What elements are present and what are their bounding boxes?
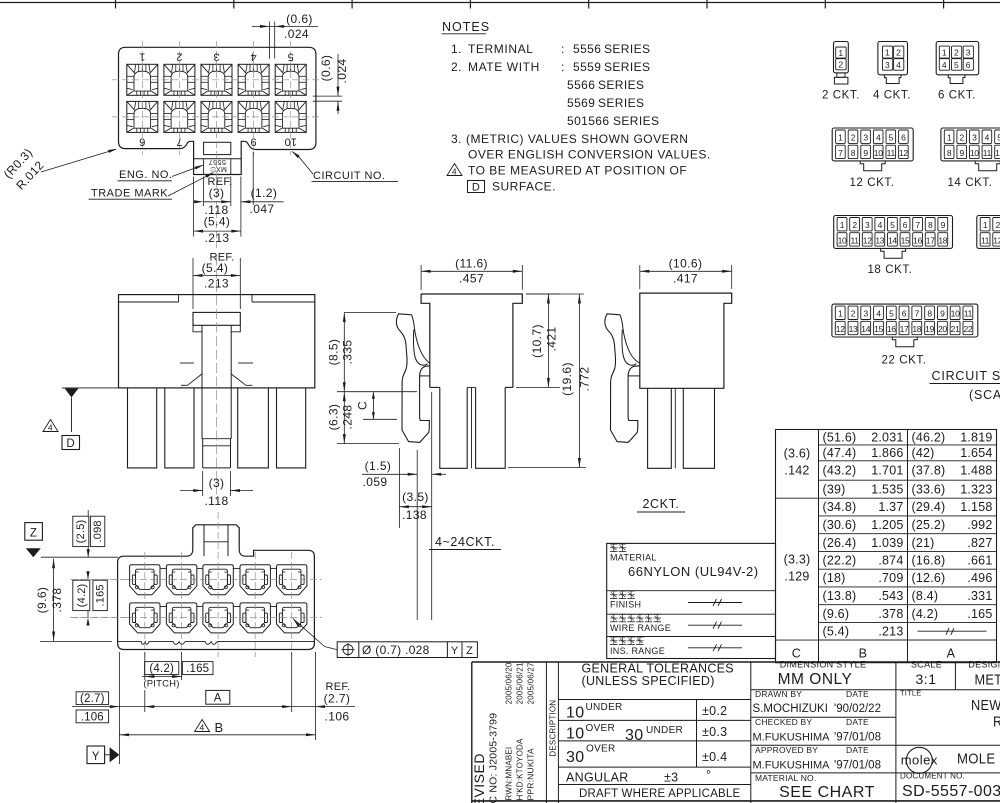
svg-text:.106: .106 <box>325 710 350 724</box>
svg-text:10: 10 <box>970 148 979 158</box>
svg-text:17: 17 <box>900 324 909 334</box>
svg-text:.772: .772 <box>578 367 592 392</box>
svg-text:10: 10 <box>566 705 584 722</box>
svg-text:(9.6): (9.6) <box>823 607 850 621</box>
svg-text:A: A <box>947 647 956 661</box>
svg-text:2: 2 <box>954 47 959 57</box>
svg-text:4: 4 <box>251 51 257 63</box>
svg-text:'90/02/22: '90/02/22 <box>834 703 881 715</box>
svg-text:2005/06/20: 2005/06/20 <box>505 662 514 704</box>
svg-text:(5.4): (5.4) <box>204 215 231 229</box>
svg-text:3: 3 <box>885 60 890 70</box>
svg-text:5566: 5566 <box>567 78 595 92</box>
svg-text:.213: .213 <box>204 277 229 291</box>
svg-text:(2.7): (2.7) <box>80 693 105 705</box>
svg-text:SCALE: SCALE <box>911 660 942 670</box>
svg-text:DATE: DATE <box>846 745 869 755</box>
svg-text:12: 12 <box>836 324 845 334</box>
svg-text:10: 10 <box>566 726 584 743</box>
svg-text:'97/01/08: '97/01/08 <box>834 760 881 772</box>
svg-text:3.: 3. <box>451 132 462 146</box>
svg-text:S.MOCHIZUKI: S.MOCHIZUKI <box>753 703 828 715</box>
svg-text:(5.4): (5.4) <box>823 625 850 639</box>
svg-text:Z: Z <box>466 645 473 657</box>
svg-text:22: 22 <box>963 324 972 334</box>
svg-text:(PITCH): (PITCH) <box>143 679 179 690</box>
svg-text:7: 7 <box>915 220 920 230</box>
svg-text:.106: .106 <box>81 711 104 723</box>
svg-text:.992: .992 <box>967 518 992 532</box>
svg-text:'97/01/08: '97/01/08 <box>834 732 881 744</box>
svg-text:.138: .138 <box>402 508 427 522</box>
svg-text:3: 3 <box>213 51 219 63</box>
svg-text:(51.6): (51.6) <box>823 430 857 444</box>
svg-text:1.701: 1.701 <box>871 464 903 478</box>
svg-text:15: 15 <box>874 324 883 334</box>
svg-text:.118: .118 <box>204 494 228 508</box>
svg-text:SERIES: SERIES <box>604 42 650 56</box>
svg-text:(0.6): (0.6) <box>286 12 313 26</box>
svg-text:MET: MET <box>975 670 1000 687</box>
svg-text:1.039: 1.039 <box>871 536 903 550</box>
svg-text:19: 19 <box>925 324 934 334</box>
svg-text:5: 5 <box>889 133 894 143</box>
svg-text:12: 12 <box>899 148 908 158</box>
svg-text:Ø (0.7) .028: Ø (0.7) .028 <box>362 643 430 657</box>
svg-text:2: 2 <box>995 220 1000 230</box>
svg-text:B: B <box>214 720 223 735</box>
svg-text:1: 1 <box>838 48 843 58</box>
svg-text:(10.7): (10.7) <box>530 324 544 358</box>
svg-text:D: D <box>472 182 480 194</box>
svg-text:Y: Y <box>451 645 459 657</box>
svg-text:11: 11 <box>964 309 973 319</box>
svg-text:(18): (18) <box>823 571 846 585</box>
svg-text:REVISED: REVISED <box>471 753 487 803</box>
svg-text:.827: .827 <box>967 536 992 550</box>
svg-text:C NO: J2005-3799: C NO: J2005-3799 <box>488 713 500 803</box>
svg-text:DATE: DATE <box>846 717 869 727</box>
svg-text:10: 10 <box>838 235 847 245</box>
svg-text:SERIES: SERIES <box>598 96 644 110</box>
svg-text:TITLE: TITLE <box>900 689 921 698</box>
svg-text:UNDER: UNDER <box>646 725 683 736</box>
svg-text:OVER ENGLISH CONVERSION VALUES: OVER ENGLISH CONVERSION VALUES. <box>468 148 711 162</box>
svg-text:SURFACE.: SURFACE. <box>492 180 556 194</box>
svg-text:1: 1 <box>838 133 843 143</box>
svg-text:30: 30 <box>625 727 643 744</box>
svg-text:5: 5 <box>890 220 895 230</box>
svg-text:8: 8 <box>851 148 856 158</box>
svg-text:.457: .457 <box>459 272 484 286</box>
svg-text:(METRIC) VALUES SHOWN GOVERN: (METRIC) VALUES SHOWN GOVERN <box>466 132 688 146</box>
svg-text:12: 12 <box>993 235 1000 245</box>
svg-text:1.535: 1.535 <box>871 482 903 496</box>
svg-text:20: 20 <box>938 324 947 334</box>
svg-text:SEE CHART: SEE CHART <box>779 784 875 801</box>
svg-text:.335: .335 <box>341 340 355 365</box>
svg-text:1.323: 1.323 <box>960 482 992 496</box>
svg-text:DIMENSION STYLE: DIMENSION STYLE <box>780 660 867 670</box>
svg-text:1: 1 <box>947 133 952 143</box>
svg-text:22 CKT.: 22 CKT. <box>881 355 926 367</box>
svg-text:14: 14 <box>861 324 870 334</box>
svg-text:(3): (3) <box>209 476 225 490</box>
svg-text:(1.2): (1.2) <box>251 186 278 200</box>
svg-text:.165: .165 <box>967 607 992 621</box>
svg-text:(5.4): (5.4) <box>202 261 229 275</box>
svg-text:11: 11 <box>983 148 992 158</box>
svg-text:14: 14 <box>888 235 897 245</box>
svg-text:.378: .378 <box>878 607 903 621</box>
svg-text:2: 2 <box>959 133 964 143</box>
svg-text:B: B <box>859 647 868 661</box>
svg-text:.378: .378 <box>50 588 64 613</box>
svg-text:2CKT.: 2CKT. <box>642 497 679 511</box>
svg-text:(29.4): (29.4) <box>912 500 946 514</box>
svg-text:4: 4 <box>896 60 901 70</box>
svg-text:NOTES: NOTES <box>442 20 490 34</box>
svg-text:8: 8 <box>927 309 932 319</box>
svg-text:1.866: 1.866 <box>871 446 903 460</box>
svg-text:1.654: 1.654 <box>960 446 992 460</box>
svg-text:3: 3 <box>863 133 868 143</box>
svg-text:6: 6 <box>139 136 145 148</box>
svg-text:4 CKT.: 4 CKT. <box>873 90 911 102</box>
svg-text:.142: .142 <box>784 464 809 478</box>
svg-text:(12.6): (12.6) <box>912 571 946 585</box>
svg-text:4: 4 <box>985 133 990 143</box>
svg-text:(19.6): (19.6) <box>560 362 574 396</box>
svg-text::: : <box>561 60 565 74</box>
svg-text:(2.5): (2.5) <box>75 520 87 544</box>
svg-text:2.031: 2.031 <box>871 430 903 444</box>
svg-text:SERIES: SERIES <box>598 78 644 92</box>
svg-text:1.819: 1.819 <box>960 430 992 444</box>
svg-text:12: 12 <box>863 235 872 245</box>
svg-text:15: 15 <box>901 235 910 245</box>
svg-text:(47.4): (47.4) <box>823 446 857 460</box>
svg-text:9: 9 <box>959 148 964 158</box>
svg-text:3:1: 3:1 <box>916 671 937 687</box>
svg-text:4: 4 <box>942 60 947 70</box>
svg-text:.709: .709 <box>878 571 903 585</box>
svg-text:(22.2): (22.2) <box>823 554 857 568</box>
svg-text:4: 4 <box>48 423 53 433</box>
svg-text:.213: .213 <box>878 625 903 639</box>
svg-text:M.FUKUSHIMA: M.FUKUSHIMA <box>753 732 831 744</box>
svg-text:8: 8 <box>947 148 952 158</box>
svg-text:OVER: OVER <box>586 723 616 734</box>
svg-text:Z: Z <box>30 528 37 540</box>
svg-text:MATERIAL: MATERIAL <box>610 553 657 563</box>
svg-text:7: 7 <box>176 136 182 148</box>
svg-text:INS. RANGE: INS. RANGE <box>610 646 665 656</box>
svg-text:(11.6): (11.6) <box>455 257 488 271</box>
svg-text:16: 16 <box>887 324 896 334</box>
svg-text:.331: .331 <box>967 589 992 603</box>
svg-text:6: 6 <box>903 220 908 230</box>
svg-text:.213: .213 <box>205 231 230 245</box>
svg-text:18 CKT.: 18 CKT. <box>867 264 912 276</box>
svg-text:APPROVED BY: APPROVED BY <box>755 745 818 755</box>
svg-text:(2.7): (2.7) <box>324 692 351 706</box>
svg-text:(46.2): (46.2) <box>912 430 946 444</box>
svg-text:.874: .874 <box>878 554 903 568</box>
svg-text:10: 10 <box>285 136 297 148</box>
svg-text:5: 5 <box>954 60 959 70</box>
svg-text:13: 13 <box>849 324 858 334</box>
svg-text:DESCRIPTION: DESCRIPTION <box>549 700 558 757</box>
svg-text:4: 4 <box>200 723 205 733</box>
svg-text:11: 11 <box>850 235 859 245</box>
svg-text:C: C <box>356 401 370 410</box>
svg-text:(13.8): (13.8) <box>823 589 857 603</box>
svg-text:1: 1 <box>942 47 947 57</box>
svg-text:1: 1 <box>983 220 988 230</box>
svg-text:.098: .098 <box>92 520 104 542</box>
svg-text:1.37: 1.37 <box>878 500 903 514</box>
svg-text:11: 11 <box>981 235 990 245</box>
svg-text:1.158: 1.158 <box>960 500 992 514</box>
svg-text:CHECKED BY: CHECKED BY <box>755 717 812 727</box>
svg-text:±0.4: ±0.4 <box>702 750 727 764</box>
svg-text:(8.4): (8.4) <box>912 589 939 603</box>
svg-text:1.488: 1.488 <box>960 464 992 478</box>
svg-text:(16.8): (16.8) <box>912 554 946 568</box>
svg-text:1.205: 1.205 <box>871 518 903 532</box>
svg-text:1: 1 <box>139 51 145 63</box>
svg-text:OVER: OVER <box>586 744 616 755</box>
svg-text:9: 9 <box>251 136 257 148</box>
svg-text:21: 21 <box>951 324 960 334</box>
svg-text:CIRCUIT NO.: CIRCUIT NO. <box>313 170 386 182</box>
svg-text:18: 18 <box>938 235 947 245</box>
svg-text:.165: .165 <box>95 584 107 606</box>
svg-text:2005/06/21: 2005/06/21 <box>516 662 525 704</box>
svg-text:(33.6): (33.6) <box>912 482 946 496</box>
svg-text:FINISH: FINISH <box>610 600 641 610</box>
svg-text:M.FUKUSHIMA: M.FUKUSHIMA <box>753 760 831 772</box>
svg-text:2: 2 <box>851 309 856 319</box>
svg-text:(43.2): (43.2) <box>823 464 857 478</box>
svg-text:6 CKT.: 6 CKT. <box>938 90 976 102</box>
svg-text:H'KD:KTOYODA: H'KD:KTOYODA <box>516 738 525 800</box>
svg-text:5556: 5556 <box>573 42 601 56</box>
svg-text:6: 6 <box>902 309 907 319</box>
svg-text:4: 4 <box>876 309 881 319</box>
svg-text:6: 6 <box>901 133 906 143</box>
svg-text:7: 7 <box>838 148 843 158</box>
svg-text:(SCA: (SCA <box>969 388 1000 402</box>
svg-text:.543: .543 <box>878 589 903 603</box>
svg-text:5: 5 <box>288 51 294 63</box>
svg-text:TRADE MARK: TRADE MARK <box>91 188 168 200</box>
svg-text:10: 10 <box>874 148 883 158</box>
svg-text:SD-5557-003: SD-5557-003 <box>902 783 1000 800</box>
svg-text:2: 2 <box>851 133 856 143</box>
svg-text:(8.5): (8.5) <box>326 339 340 366</box>
svg-text:.047: .047 <box>250 202 275 216</box>
svg-text:R: R <box>993 712 1000 729</box>
svg-text:13: 13 <box>875 235 884 245</box>
svg-text:9: 9 <box>863 148 868 158</box>
svg-text:DOCUMENT NO.: DOCUMENT NO. <box>900 772 965 781</box>
svg-text:(6.3): (6.3) <box>326 404 340 431</box>
svg-text:2005/06/27: 2005/06/27 <box>527 662 536 704</box>
svg-text:5559: 5559 <box>573 60 601 74</box>
svg-text:(3.6): (3.6) <box>784 447 811 461</box>
svg-text:2 CKT.: 2 CKT. <box>822 90 860 102</box>
svg-text:(9.6): (9.6) <box>35 587 49 614</box>
svg-text:±3: ±3 <box>664 771 678 785</box>
svg-text:.661: .661 <box>967 554 992 568</box>
svg-text:12: 12 <box>995 148 1000 158</box>
svg-text:(42): (42) <box>912 446 935 460</box>
svg-text:4~24CKT.: 4~24CKT. <box>435 535 495 549</box>
svg-text:CIRCUIT S: CIRCUIT S <box>932 369 1000 383</box>
svg-text:.496: .496 <box>967 571 992 585</box>
svg-text:.059: .059 <box>363 475 388 489</box>
svg-text:11: 11 <box>887 148 896 158</box>
svg-text:.417: .417 <box>673 272 698 286</box>
svg-text:2: 2 <box>896 47 901 57</box>
svg-text:molex: molex <box>901 753 938 768</box>
svg-text:16: 16 <box>913 235 922 245</box>
svg-text:SERIES: SERIES <box>613 114 659 128</box>
svg-text:±0.2: ±0.2 <box>702 704 727 718</box>
svg-text:Y: Y <box>92 751 100 763</box>
svg-text:4: 4 <box>452 167 457 177</box>
svg-text:9: 9 <box>940 309 945 319</box>
svg-text:(4.2): (4.2) <box>149 663 174 675</box>
svg-text:5569: 5569 <box>567 96 595 110</box>
svg-text:3: 3 <box>865 220 870 230</box>
svg-text:DRAFT WHERE APPLICABLE: DRAFT WHERE APPLICABLE <box>579 788 741 800</box>
svg-text:501566: 501566 <box>567 114 609 128</box>
svg-text:TO BE MEASURED AT POSITION OF: TO BE MEASURED AT POSITION OF <box>468 164 687 178</box>
svg-text:7: 7 <box>915 309 920 319</box>
svg-text:4: 4 <box>876 133 881 143</box>
svg-text:1.: 1. <box>451 42 462 56</box>
svg-text::: : <box>561 42 565 56</box>
svg-text:(UNLESS SPECIFIED): (UNLESS SPECIFIED) <box>582 674 715 688</box>
svg-text:SERIES: SERIES <box>604 60 650 74</box>
svg-text:DATE: DATE <box>846 689 869 699</box>
svg-text:D: D <box>66 438 75 450</box>
svg-text:17: 17 <box>926 235 935 245</box>
svg-text:C: C <box>792 647 801 661</box>
svg-text:2: 2 <box>838 60 843 70</box>
svg-text:(39): (39) <box>823 482 846 496</box>
svg-text:6: 6 <box>966 60 971 70</box>
svg-text:(30.6): (30.6) <box>823 518 857 532</box>
svg-text:3: 3 <box>966 47 971 57</box>
svg-text:(21): (21) <box>912 536 935 550</box>
svg-text:9: 9 <box>941 220 946 230</box>
svg-text:(10.6): (10.6) <box>669 257 703 271</box>
svg-text:3: 3 <box>863 309 868 319</box>
svg-text:MATERIAL NO.: MATERIAL NO. <box>755 773 816 783</box>
svg-text:A: A <box>214 692 222 704</box>
svg-text:.248: .248 <box>341 405 355 430</box>
svg-text:MM ONLY: MM ONLY <box>778 671 853 688</box>
svg-text:MX⎋: MX⎋ <box>210 165 227 173</box>
svg-text:DRAWN BY: DRAWN BY <box>755 689 802 699</box>
svg-text:3: 3 <box>972 133 977 143</box>
svg-text:2: 2 <box>852 220 857 230</box>
svg-text:(34.8): (34.8) <box>823 500 857 514</box>
svg-text:12 CKT.: 12 CKT. <box>849 177 894 189</box>
svg-text:(4.2): (4.2) <box>912 607 939 621</box>
svg-text:5: 5 <box>889 309 894 319</box>
svg-text:°: ° <box>706 768 711 782</box>
svg-text:66NYLON (UL94V-2): 66NYLON (UL94V-2) <box>628 564 759 579</box>
svg-text:30: 30 <box>566 749 584 766</box>
svg-text:18: 18 <box>912 324 921 334</box>
svg-text:(1.5): (1.5) <box>365 459 392 473</box>
svg-text:WIRE RANGE: WIRE RANGE <box>610 623 671 633</box>
svg-text:DESIGN: DESIGN <box>968 660 1000 670</box>
svg-text:.024: .024 <box>335 59 349 84</box>
svg-text:ANGULAR: ANGULAR <box>566 771 629 785</box>
svg-text:PPR:NUKITA: PPR:NUKITA <box>526 748 536 801</box>
svg-text:(3.5): (3.5) <box>402 490 429 504</box>
svg-text:(37.8): (37.8) <box>912 464 946 478</box>
svg-text:MOLE: MOLE <box>957 750 995 767</box>
svg-text:8: 8 <box>928 220 933 230</box>
svg-text:.129: .129 <box>784 570 809 584</box>
svg-text:(0.6): (0.6) <box>319 55 333 82</box>
svg-text:1: 1 <box>885 47 890 57</box>
svg-text:(4.2): (4.2) <box>76 584 88 608</box>
svg-text:2: 2 <box>176 51 182 63</box>
svg-text:(26.4): (26.4) <box>823 536 857 550</box>
svg-text:ENG. NO.: ENG. NO. <box>119 169 173 181</box>
svg-text:RWN:MNABEI: RWN:MNABEI <box>505 747 514 801</box>
svg-text:(25.2): (25.2) <box>912 518 946 532</box>
svg-text:(3): (3) <box>209 186 225 200</box>
svg-text:(3.3): (3.3) <box>784 553 811 567</box>
svg-text:10: 10 <box>951 309 960 319</box>
svg-text:.421: .421 <box>545 327 559 352</box>
svg-text:1: 1 <box>840 220 845 230</box>
svg-text:14 CKT.: 14 CKT. <box>947 177 992 189</box>
svg-text:UNDER: UNDER <box>586 702 623 713</box>
svg-text:2.: 2. <box>451 60 462 74</box>
svg-text:±0.3: ±0.3 <box>702 725 727 739</box>
svg-text:4: 4 <box>878 220 883 230</box>
svg-text:.165: .165 <box>186 663 209 675</box>
svg-text:MATE WITH: MATE WITH <box>468 60 540 74</box>
svg-text:TERMINAL: TERMINAL <box>468 42 533 56</box>
svg-text:1: 1 <box>838 309 843 319</box>
svg-text:NEW: NEW <box>971 696 1000 713</box>
svg-text:.024: .024 <box>284 27 309 41</box>
